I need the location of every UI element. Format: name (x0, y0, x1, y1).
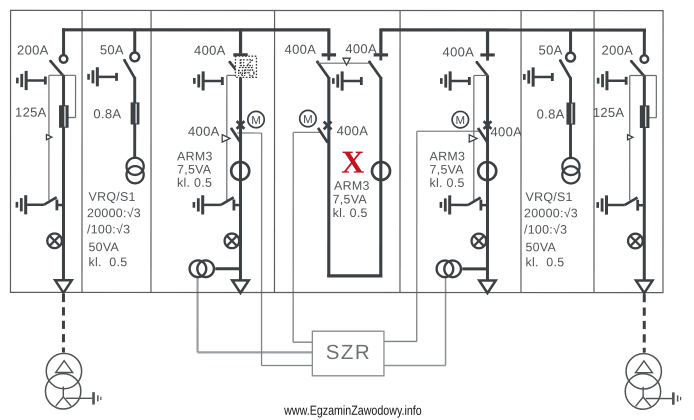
wire: main feeder line (643, 76, 646, 282)
wire: busbar section A (62, 28, 329, 31)
withdrawable frame line (474, 75, 489, 200)
current transformer (478, 162, 496, 180)
partition bay2/bay3 (150, 10, 152, 292)
svg-text:0.8A: 0.8A (93, 106, 121, 121)
wire: VT branch line (569, 77, 572, 159)
ground (66, 392, 101, 404)
striker marker triangle (222, 135, 230, 142)
wire: bus B end drop with terminal (379, 28, 382, 53)
svg-text:X: X (341, 144, 364, 180)
svg-text:kl. 0.5: kl. 0.5 (177, 176, 212, 190)
wire: bay6 cable CT to SZR (right) (384, 277, 446, 365)
svg-text:M: M (251, 115, 261, 127)
power transformer (Dy with earthed star point) (625, 354, 661, 410)
fuse holder frame (49, 75, 76, 200)
wire: cable to transformer (dashed) (62, 294, 65, 353)
coupler switch-disconnector blade (318, 128, 328, 143)
wire: bus drop (62, 28, 65, 54)
wire: bus drop (569, 28, 572, 52)
partition bay1/bay2 (81, 10, 83, 292)
wire: bus drop (133, 28, 136, 52)
wire: bay3 switch linkage to SZR (237, 133, 312, 366)
wire: coupler left switch linkage to SZR (293, 132, 322, 342)
svg-text:VRQ/S1: VRQ/S1 (89, 190, 136, 204)
disconnector blade 50A (123, 59, 135, 78)
disconnector blade 50A (559, 59, 571, 78)
svg-text:400A: 400A (443, 44, 475, 59)
switch-disconnector blade lower (231, 128, 241, 143)
outgoing arrow (232, 280, 249, 293)
SZR automatic transfer switch controller (312, 331, 384, 376)
power transformer (Dy with earthed star point) (45, 353, 81, 409)
wire: coupler left branch (327, 77, 330, 277)
svg-text:7,5VA: 7,5VA (333, 192, 368, 206)
disconnector blade 200A (630, 60, 644, 76)
striker marker triangle (469, 135, 477, 142)
earthing switch upper (194, 71, 222, 90)
fuse 0.8A (566, 102, 575, 124)
svg-text:50VA: 50VA (525, 240, 556, 254)
switch-disconnector 400A contact x (237, 121, 245, 129)
svg-text:400A: 400A (491, 124, 523, 139)
earthing switch coupler (333, 71, 361, 90)
fuse holder frame (630, 75, 657, 200)
motor drive M (248, 111, 264, 127)
wire: main feeder line (62, 75, 65, 281)
label VRQ/S1 data (524, 190, 578, 269)
motor drive M coupler (300, 110, 316, 126)
svg-text:VRQ/S1: VRQ/S1 (526, 190, 573, 204)
wire: cable to transformer (dashed) (643, 294, 646, 353)
wire: bay3 cable CT to SZR (left, light gray) (198, 277, 313, 352)
fuse 125A (59, 105, 69, 128)
svg-text:/100:√3: /100:√3 (87, 222, 130, 236)
earthing switch upper (441, 71, 469, 90)
switchgear enclosure frame (10, 10, 663, 292)
partition bay3/coupler (273, 10, 275, 292)
svg-text:400A: 400A (285, 42, 317, 57)
earthing switch lower with blade (17, 195, 64, 214)
svg-text:www.EgzaminZawodowy.info: www.EgzaminZawodowy.info (283, 403, 421, 418)
svg-text:200A: 200A (602, 43, 634, 58)
svg-text:kl. 0.5: kl. 0.5 (525, 255, 564, 269)
signal lamp (628, 234, 643, 249)
svg-text:7,5VA: 7,5VA (430, 163, 465, 177)
earthing switch (89, 67, 117, 86)
svg-text:M: M (303, 114, 313, 126)
svg-text:kl. 0.5: kl. 0.5 (88, 255, 127, 269)
disconnector blade 400A upper (228, 56, 240, 75)
label ARM3 coupler CT data (333, 179, 370, 220)
wire: bus drop with terminal (239, 28, 242, 53)
cable current transformer (double circle) (437, 261, 488, 278)
outgoing arrow (479, 280, 496, 293)
earthing switch (524, 67, 552, 86)
svg-text:50A: 50A (539, 42, 563, 57)
ground (646, 392, 681, 404)
coupler disconnector blade right (368, 57, 381, 79)
fuse 125A (640, 105, 650, 128)
wire: coupler bottom connection (327, 274, 382, 277)
outgoing arrow to transformer (636, 281, 653, 294)
outgoing arrow to transformer (55, 280, 72, 293)
svg-text:200A: 200A (17, 42, 49, 57)
cable current transformer (double circle) (190, 260, 241, 277)
wire: bus drop (643, 29, 646, 55)
wire: feeder main line (486, 75, 489, 281)
svg-text:ARM3: ARM3 (334, 179, 370, 193)
wire: feeder main line (239, 75, 242, 281)
voltage transformer VRQ/S1 (127, 158, 144, 184)
disconnector blade 200A (49, 60, 63, 76)
current transformer (231, 162, 249, 180)
svg-text:0.8A: 0.8A (537, 106, 565, 121)
svg-text:50VA: 50VA (88, 240, 119, 254)
striker marker triangle (46, 134, 51, 139)
earthing switch lower with blade (598, 195, 645, 214)
withdrawable frame line (227, 75, 242, 200)
signal lamp (472, 234, 487, 249)
svg-text:M: M (456, 115, 466, 127)
partition coupler/bay5 (399, 11, 401, 293)
svg-text:400A: 400A (194, 43, 226, 58)
label ARM3 CT data (177, 149, 213, 189)
wire: bus A end drop with terminal (327, 28, 330, 53)
svg-text:7,5VA: 7,5VA (177, 163, 212, 177)
partition bay5/bay6 (520, 11, 522, 293)
wire: bay6 switch linkage to SZR (right) (384, 131, 480, 341)
earthing switch lower with blade (194, 195, 241, 214)
svg-text:400A: 400A (345, 41, 377, 56)
svg-text:125A: 125A (593, 105, 625, 120)
striker marker triangle (628, 135, 633, 140)
mechanical coupling link between blades (318, 58, 370, 65)
svg-text:400A: 400A (337, 123, 369, 138)
svg-text:20000:√3: 20000:√3 (524, 206, 578, 220)
switch-disconnector 400A contact x (484, 121, 492, 129)
label ARM3 CT data (430, 149, 466, 189)
svg-text:20000:√3: 20000:√3 (87, 206, 141, 220)
earthing switch upper (598, 71, 626, 90)
coupler switch contact x (324, 122, 332, 130)
motor drive M (452, 111, 468, 127)
svg-text:400A: 400A (188, 124, 220, 139)
wire: coupler right branch (379, 77, 382, 277)
wire: busbar section B (381, 28, 646, 31)
earthing switch lower with blade (441, 195, 488, 214)
svg-text:kl. 0.5: kl. 0.5 (430, 176, 465, 190)
svg-text:SZR: SZR (326, 341, 372, 364)
wire: VT branch line (133, 77, 136, 159)
svg-text:/100:√3: /100:√3 (524, 223, 567, 237)
wire: bus drop with terminal (486, 28, 489, 53)
label VRQ/S1 data (87, 190, 141, 269)
signal lamp (47, 233, 62, 248)
svg-text:ARM3: ARM3 (177, 149, 213, 163)
coupler disconnector blade left (316, 56, 329, 78)
current transformer coupler (372, 162, 390, 180)
disconnector blade 400A upper (475, 57, 487, 76)
switch-disconnector blade lower (478, 128, 488, 143)
voltage transformer VRQ/S1 (562, 158, 579, 184)
signal lamp (225, 234, 240, 249)
svg-text:kl. 0.5: kl. 0.5 (333, 206, 368, 220)
svg-text:50A: 50A (100, 42, 124, 57)
earthing switch upper (17, 71, 45, 90)
partition bay6/bay7 (593, 11, 595, 293)
svg-text:125A: 125A (15, 105, 47, 120)
watermark badge EZ INFO (235, 56, 256, 77)
fuse 0.8A (131, 102, 140, 124)
svg-text:ARM3: ARM3 (430, 149, 466, 163)
